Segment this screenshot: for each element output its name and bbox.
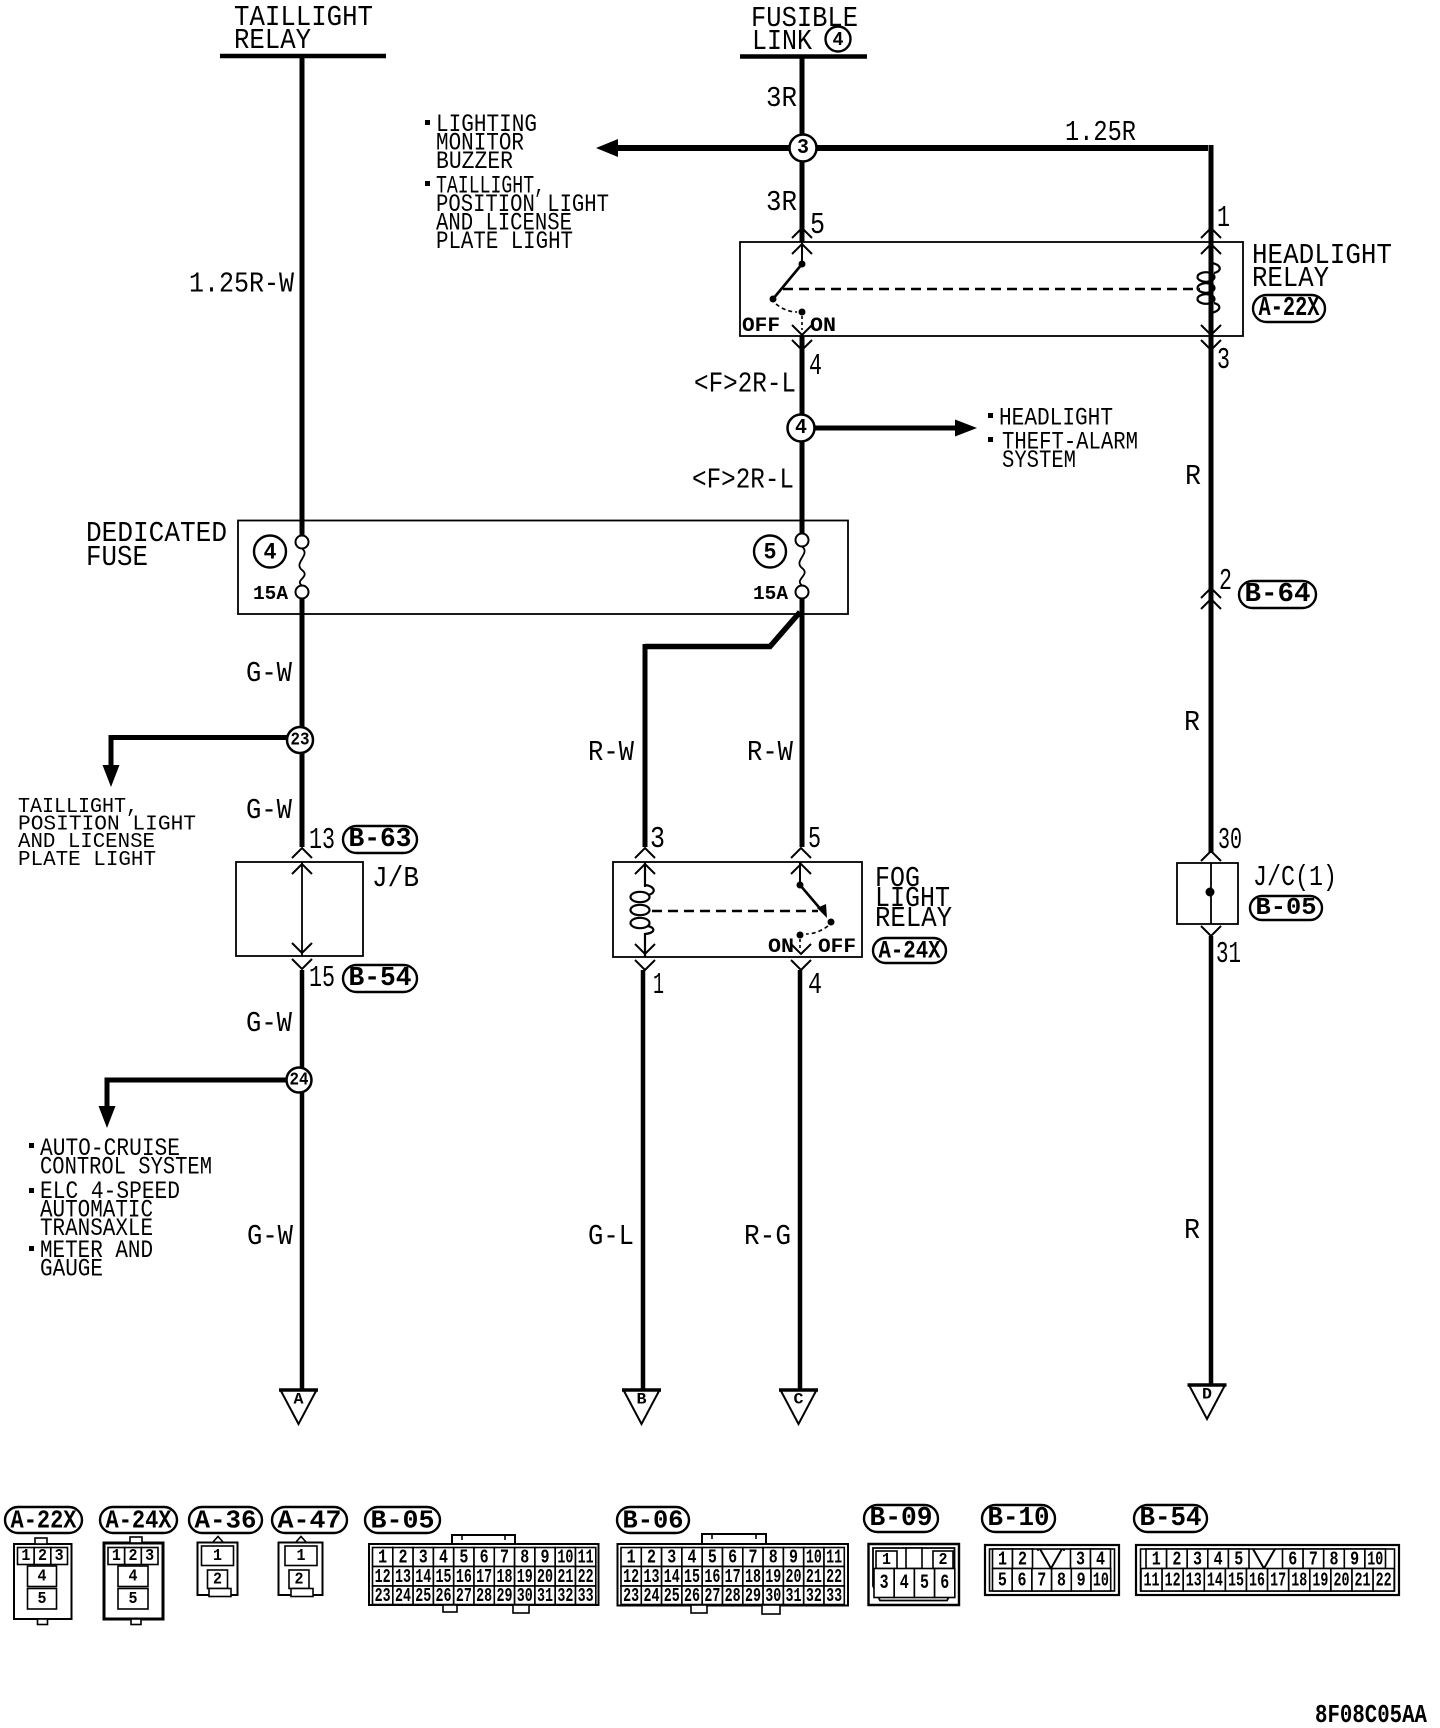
wire arrow to taillight etc (node 23) [103,735,301,787]
svg-text:R: R [1184,1214,1200,1247]
svg-text:32: 32 [806,1585,822,1607]
svg-text:RELAY: RELAY [875,902,952,935]
svg-text:12: 12 [1165,1569,1181,1591]
svg-text:15A: 15A [253,583,289,605]
svg-text:C: C [794,1391,804,1409]
wire R to B-64 [1209,242,1214,853]
connector chevrons pin 13 [292,848,312,874]
svg-text:A-22X: A-22X [1259,294,1321,324]
destination list: taillight position license plate light [18,796,196,872]
svg-text:2: 2 [1172,1548,1181,1570]
svg-text:4: 4 [129,1567,138,1586]
svg-text:30: 30 [765,1585,781,1607]
svg-text:4: 4 [900,1572,909,1595]
svg-text:PLATE LIGHT: PLATE LIGHT [436,227,573,256]
svg-text:7: 7 [1037,1569,1046,1591]
connector pinout B-54 [1134,1504,1399,1595]
svg-text:G-W: G-W [246,1007,293,1040]
svg-text:10: 10 [1093,1569,1109,1591]
fog light relay dashed link [652,910,818,913]
svg-text:5: 5 [129,1590,138,1609]
svg-text:R: R [1184,706,1200,739]
svg-text:6: 6 [1288,1548,1297,1570]
svg-text:15: 15 [1228,1569,1244,1591]
svg-text:B-54: B-54 [1140,1504,1202,1534]
svg-text:A-47: A-47 [278,1506,342,1536]
destination list: auto-cruise / elc / meter and gauge [29,1134,212,1284]
svg-text:8F08C05AA: 8F08C05AA [1315,1700,1427,1728]
svg-text:A-24X: A-24X [879,937,941,966]
svg-text:B-09: B-09 [870,1504,933,1534]
connector pinout A-36 [189,1506,262,1597]
svg-text:31: 31 [537,1585,553,1607]
fog relay connector ref (A-24X) [873,937,946,966]
svg-text:3: 3 [1076,1548,1085,1570]
svg-text:5: 5 [808,822,821,857]
svg-text:2: 2 [38,1547,47,1566]
svg-text:J/C(1): J/C(1) [1253,861,1337,894]
wire arrow to auto-cruise etc (node 24) [99,1078,300,1129]
connector pinout B-10 [982,1504,1119,1595]
svg-text:4: 4 [809,349,822,384]
inline connector chevrons (B-64) [1201,588,1221,609]
svg-text:28: 28 [725,1585,741,1607]
svg-text:R: R [1185,460,1201,493]
svg-text:22: 22 [1376,1569,1392,1591]
svg-text:19: 19 [1312,1569,1328,1591]
connector pinout A-22X [5,1506,82,1625]
svg-text:GAUGE: GAUGE [40,1255,103,1284]
svg-text:26: 26 [684,1585,700,1607]
svg-text:1: 1 [297,1547,306,1566]
svg-text:B-63: B-63 [349,825,412,855]
svg-text:G-W: G-W [247,1220,294,1253]
destination list: headlight / theft-alarm system [988,404,1138,476]
svg-text:PLATE LIGHT: PLATE LIGHT [18,849,156,872]
wire arrow to lighting monitor buzzer [596,139,790,157]
svg-text:4: 4 [808,968,822,1003]
svg-text:2: 2 [1018,1548,1027,1570]
svg-text:5: 5 [920,1572,929,1595]
harness connector C [779,1390,818,1424]
wire R-G [798,970,803,1390]
junction block J/B box [236,862,363,956]
svg-text:3R: 3R [766,186,797,219]
svg-text:23: 23 [623,1585,639,1607]
svg-text:3: 3 [145,1547,154,1566]
svg-text:A-36: A-36 [195,1506,257,1536]
svg-text:<F>2R-L: <F>2R-L [694,368,796,401]
connector chevrons pin 5 [792,228,812,254]
node 4 [788,415,815,442]
svg-text:LINK: LINK [752,25,813,58]
svg-text:A-24X: A-24X [106,1506,172,1536]
svg-text:4: 4 [1214,1548,1223,1570]
svg-text:B: B [637,1391,647,1409]
svg-text:27: 27 [456,1585,472,1607]
node 3 [790,135,817,162]
svg-text:A: A [294,1391,304,1409]
svg-text:11: 11 [1144,1569,1160,1591]
svg-text:31: 31 [1216,937,1241,972]
svg-text:G-L: G-L [588,1220,634,1253]
svg-text:4: 4 [264,540,277,566]
svg-text:OFF: OFF [818,936,856,959]
svg-text:23: 23 [375,1585,391,1607]
svg-text:10: 10 [1367,1548,1383,1570]
fog light relay coil [631,862,654,957]
connector chevrons pin 15 [292,943,312,969]
wire R (J/C to connector D) [1209,936,1214,1385]
svg-text:3: 3 [650,822,665,857]
fog light relay label [875,862,952,935]
svg-text:G-W: G-W [246,794,293,827]
svg-text:R-W: R-W [747,736,794,769]
dedicated fuse box [238,521,848,615]
svg-text:13: 13 [1186,1569,1202,1591]
svg-text:1: 1 [1152,1548,1161,1570]
connector ref (B-64) [1239,580,1316,610]
svg-text:9: 9 [1077,1569,1086,1591]
svg-text:5: 5 [998,1569,1007,1591]
headlight relay coil [1198,242,1220,336]
wire inside J/C with joint dot [1206,863,1215,924]
svg-text:1: 1 [1217,201,1230,236]
svg-text:2: 2 [1219,564,1232,599]
svg-text:25: 25 [415,1585,431,1607]
svg-text:4: 4 [795,417,807,440]
svg-text:1: 1 [21,1547,30,1566]
svg-text:B-54: B-54 [349,964,412,994]
fuse 5 (15A) [753,524,809,605]
headlight relay U: box [740,242,1243,336]
wire G-W (fuse to node 23) [300,598,305,847]
wire 1.25R-W from taillight relay [300,56,305,536]
headlight relay label [1252,239,1392,295]
svg-text:1.25R-W: 1.25R-W [189,268,295,301]
svg-text:B-64: B-64 [1245,580,1311,610]
svg-text:30: 30 [1218,823,1242,858]
svg-text:6: 6 [1018,1569,1027,1591]
svg-text:3: 3 [1217,343,1230,378]
connector chevrons pin 1 [1201,228,1221,254]
svg-text:3R: 3R [766,82,797,115]
svg-text:3: 3 [880,1572,889,1595]
svg-text:33: 33 [578,1585,594,1607]
svg-text:ON: ON [810,315,836,338]
svg-text:3: 3 [55,1547,64,1566]
connector chevrons pin 5 fog [791,848,811,874]
harness connector A [279,1390,318,1424]
svg-text:J/B: J/B [372,862,419,895]
taillight relay label [234,1,373,57]
svg-text:23: 23 [291,731,310,751]
connector chevrons pin 4 [792,325,812,350]
svg-text:2: 2 [213,1570,222,1589]
connector chevrons pin 3 fog [635,848,655,874]
svg-text:24: 24 [290,1071,309,1091]
connector pinout A-24X [100,1506,177,1625]
svg-text:4: 4 [1096,1548,1105,1570]
svg-text:R-G: R-G [744,1220,791,1253]
svg-text:8: 8 [1057,1569,1066,1591]
taillight relay bus bar [220,54,386,59]
svg-text:4: 4 [833,29,844,51]
connector chevron pin 31 [1201,926,1221,936]
svg-text:5: 5 [1234,1548,1243,1570]
svg-text:15A: 15A [753,583,789,605]
svg-text:1: 1 [998,1548,1007,1570]
svg-text:7: 7 [1309,1548,1318,1570]
connector chevron pin 30 [1201,851,1221,861]
connector chevrons pin 3 [1201,325,1221,350]
wire arrow to headlight / theft-alarm [814,420,977,437]
fusible link label [751,2,858,58]
svg-text:RELAY: RELAY [1252,262,1329,295]
svg-text:8: 8 [1330,1548,1339,1570]
connector ref (B-63) [343,825,417,855]
svg-text:18: 18 [1291,1569,1307,1591]
svg-text:27: 27 [704,1585,720,1607]
connector ref (B-54 inline) [343,964,417,994]
svg-text:17: 17 [1270,1569,1286,1591]
svg-text:32: 32 [557,1585,573,1607]
svg-text:B-10: B-10 [988,1504,1050,1534]
svg-text:2: 2 [295,1570,304,1589]
svg-text:B-05: B-05 [1256,895,1317,922]
fusible link bus bar [740,54,867,59]
svg-text:5: 5 [38,1590,47,1609]
svg-text:B-05: B-05 [371,1506,435,1536]
svg-text:1: 1 [653,968,664,1003]
svg-text:30: 30 [517,1585,533,1607]
connector pinout B-09 [864,1504,959,1605]
wire R-W (fuse 5 to fog relay) [800,598,805,847]
svg-text:29: 29 [496,1585,512,1607]
svg-text:28: 28 [476,1585,492,1607]
svg-text:2: 2 [939,1551,948,1570]
svg-text:D: D [1202,1386,1212,1404]
wire (F)2R-L [800,336,805,537]
svg-text:2: 2 [129,1547,138,1566]
svg-text:13: 13 [309,823,335,858]
connector ref (B-05 inline) [1250,895,1322,922]
connector pinout B-06 [617,1506,848,1615]
svg-text:FUSE: FUSE [86,541,148,574]
wire inside J/B [301,862,303,956]
svg-text:1: 1 [213,1547,222,1566]
junction connector J/C box [1177,863,1238,924]
dedicated fuse label [86,517,227,574]
headlight relay dashed link [783,288,1200,291]
svg-text:5: 5 [810,208,825,243]
svg-text:6: 6 [940,1572,949,1595]
harness connector B [622,1390,661,1424]
svg-text:29: 29 [745,1585,761,1607]
node 24 [287,1068,312,1093]
svg-text:4: 4 [38,1567,47,1586]
connector pinout A-47 [272,1506,347,1597]
svg-text:1: 1 [112,1547,121,1566]
svg-text:<F>2R-L: <F>2R-L [692,464,794,497]
headlight relay switch [770,242,806,330]
svg-text:31: 31 [786,1585,802,1607]
svg-text:1: 1 [882,1551,891,1570]
svg-text:ON: ON [768,936,794,959]
connector chevrons pin 1 fog [635,944,655,970]
svg-text:24: 24 [643,1585,659,1607]
svg-text:24: 24 [395,1585,411,1607]
svg-text:21: 21 [1355,1569,1371,1591]
svg-text:15: 15 [309,961,335,996]
harness connector D [1188,1385,1227,1419]
destination list: lighting monitor buzzer / taillight etc [425,110,609,256]
svg-text:3: 3 [1193,1548,1202,1570]
svg-text:B-06: B-06 [623,1506,684,1536]
fog light relay switch [797,862,835,950]
svg-text:RELAY: RELAY [234,24,311,57]
svg-text:5: 5 [764,540,777,566]
svg-text:33: 33 [826,1585,842,1607]
svg-text:1.25R: 1.25R [1065,116,1136,149]
fusible link circled 4 [826,27,851,52]
svg-text:A-22X: A-22X [11,1506,77,1536]
svg-text:SYSTEM: SYSTEM [1002,446,1076,475]
wire G-L [641,970,646,1390]
svg-text:25: 25 [664,1585,680,1607]
svg-text:26: 26 [436,1585,452,1607]
svg-text:G-W: G-W [246,657,293,690]
connector chevrons pin 4 fog [791,944,811,970]
svg-text:20: 20 [1333,1569,1349,1591]
headlight relay connector ref (A-22X) [1253,294,1325,324]
fog light relay box [613,862,862,957]
wire 3R from fusible link [800,56,805,242]
wire 1.25R to headlight relay [802,145,1211,242]
connector pinout B-05 [365,1506,599,1614]
svg-text:3: 3 [797,137,809,160]
node 23 [287,727,313,753]
wire G-W (J/B to node 24) [300,970,305,1390]
svg-text:9: 9 [1350,1548,1359,1570]
svg-text:R-W: R-W [588,736,635,769]
svg-text:OFF: OFF [742,315,780,338]
svg-text:14: 14 [1207,1569,1223,1591]
svg-text:16: 16 [1249,1569,1265,1591]
wire branch R-W from fuse 5 [645,612,800,847]
fuse 4 (15A) [253,524,309,605]
